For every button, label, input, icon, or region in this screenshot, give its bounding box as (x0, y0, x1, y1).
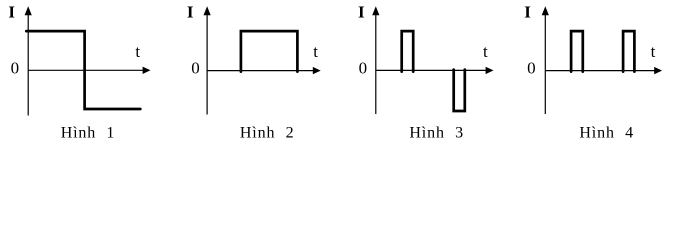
svg-text:I: I (187, 3, 194, 22)
figure 2: single positive pulse waveform (241, 31, 298, 72)
figure 4: second narrow positive pulse waveform (623, 31, 634, 72)
figure 1: square-wave current waveform (26, 31, 140, 109)
figure 4: I-axis arrowhead (542, 6, 549, 15)
figure 3: I-axis arrowhead (372, 6, 379, 15)
figure 1: t-axis (horizontal) (28, 69, 144, 71)
svg-text:I: I (524, 3, 531, 22)
svg-text:I: I (8, 3, 15, 22)
figure 2: t-axis (horizontal) (207, 70, 314, 72)
figure 1: I-axis arrowhead (25, 6, 32, 15)
svg-text:I: I (358, 3, 365, 22)
svg-text:Hình 1: Hình 1 (61, 125, 116, 142)
figure 3: t-axis (horizontal) (376, 69, 488, 71)
svg-text:t: t (135, 42, 140, 61)
figure 4: I-axis (vertical) (544, 11, 546, 114)
svg-text:0: 0 (191, 59, 200, 78)
figure 4: t-axis arrowhead (654, 67, 662, 74)
svg-text:Hình 4: Hình 4 (579, 125, 634, 142)
figure 4: t-axis (horizontal) (545, 70, 656, 72)
svg-text:t: t (651, 42, 656, 61)
svg-text:0: 0 (359, 59, 368, 78)
figure 2: I-axis (vertical) (206, 11, 208, 115)
figure 2: I-axis arrowhead (204, 6, 211, 15)
figure 3: narrow positive pulse waveform (402, 31, 414, 72)
figure 1: I-axis (vertical) (27, 11, 29, 116)
svg-text:t: t (483, 42, 488, 61)
figure 2: t-axis arrowhead (313, 67, 321, 74)
figure 3: I-axis (vertical) (375, 11, 377, 114)
svg-text:0: 0 (11, 59, 20, 78)
svg-text:Hình 2: Hình 2 (240, 125, 295, 142)
svg-text:Hình 3: Hình 3 (409, 125, 464, 142)
svg-text:0: 0 (527, 59, 536, 78)
svg-text:t: t (313, 42, 318, 61)
figure 3: t-axis arrowhead (486, 67, 494, 74)
figure 3: narrow negative pulse waveform (454, 70, 465, 111)
figure 4: first narrow positive pulse waveform (571, 31, 583, 72)
figure 1: t-axis arrowhead (143, 67, 151, 74)
